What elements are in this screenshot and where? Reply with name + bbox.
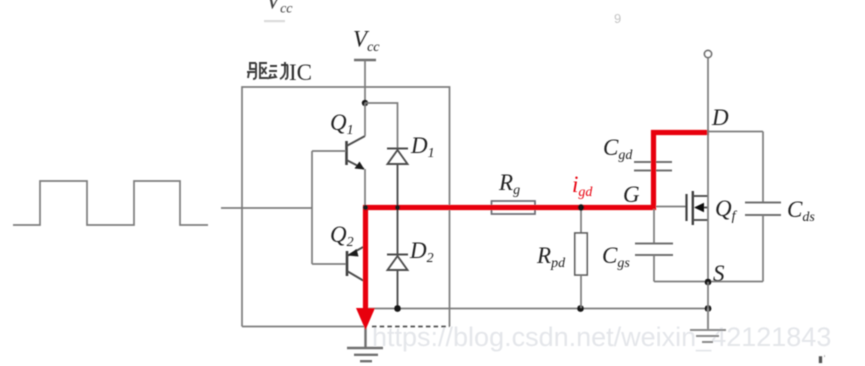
capacitor Cds [745, 132, 781, 282]
wire: input to driver IC [221, 207, 312, 209]
capacitor Cgs plates [635, 244, 673, 256]
svg-text:Vcc: Vcc [266, 0, 293, 17]
drain terminal circle [704, 50, 711, 57]
red discharge path down with arrow [363, 206, 368, 310]
glyph 动 [269, 62, 288, 79]
wire Vcc to node [364, 60, 366, 103]
svg-text:Qf: Qf [715, 196, 738, 224]
svg-text:Q2: Q2 [330, 222, 354, 250]
resistor Rpd [575, 233, 587, 275]
junction dot D1-D2 wire on red wire [395, 205, 400, 210]
wire base bus vertical [311, 151, 313, 264]
wire S down to bottom rail [707, 282, 709, 309]
driver IC box bottom edge (solid part) [242, 326, 364, 328]
svg-text:D1: D1 [410, 133, 435, 161]
junction dot at igd node [578, 204, 584, 210]
wire Rpd to bottom rail [580, 275, 582, 308]
svg-text:https://blog.csdn.net/weixin_4: https://blog.csdn.net/weixin_42121843 [372, 322, 831, 352]
svg-text:Cgs: Cgs [602, 243, 630, 271]
junction dot D2 bottom [394, 305, 401, 312]
wire Q2 base stub [312, 263, 346, 265]
junction dot S bottom [705, 305, 712, 312]
wire Q1 collector up [364, 103, 366, 136]
svg-text:Vcc: Vcc [353, 27, 380, 56]
diode D2 [387, 255, 408, 309]
wire G to gate [656, 206, 686, 208]
wire Q2 collector down [364, 281, 366, 309]
wire S rail [654, 281, 763, 283]
svg-text:▮ʾ: ▮ʾ [818, 354, 826, 364]
svg-text:Rpd: Rpd [536, 243, 566, 271]
wire node to D1 top [365, 103, 398, 148]
diode D1 [387, 149, 408, 255]
svg-text:Cds: Cds [787, 197, 815, 225]
node: Vcc junction dot [362, 100, 368, 106]
red arrowhead [356, 308, 375, 330]
ghost Vcc artifact top-left [264, 0, 293, 22]
svg-text:9: 9 [614, 11, 621, 26]
junction dot at Q emitters on red wire [363, 205, 368, 210]
transistor Q2 (PNP) [347, 246, 365, 281]
transistor Q1 (NPN) [347, 136, 366, 170]
glyph 驱 [247, 63, 268, 79]
node S dot [705, 279, 712, 286]
driver IC box bottom edge (dashed part over watermark) [372, 326, 450, 328]
MOSFET Qf [687, 191, 709, 225]
Vcc supply bar [354, 59, 376, 62]
junction dot Rpd bottom [577, 305, 584, 312]
label 驱动IC [247, 62, 288, 79]
square wave input signal [13, 181, 208, 225]
svg-text:Q1: Q1 [330, 110, 354, 138]
bottom rail wire [365, 308, 708, 310]
wire D to Cds top [708, 131, 763, 133]
svg-text:IC: IC [289, 60, 312, 85]
driver IC box [242, 87, 450, 327]
wire igd node down to Rpd [580, 209, 582, 233]
svg-text:S: S [713, 261, 725, 286]
capacitor Cgd plates [634, 162, 672, 171]
wire Cgs down to S rail [653, 255, 655, 282]
red gate current path (horizontal + up through Cgd to D) [363, 133, 709, 208]
svg-text:G: G [623, 182, 640, 207]
svg-text:D2: D2 [409, 238, 434, 266]
svg-text:D: D [711, 105, 729, 130]
wire G down to Cgs [653, 209, 655, 243]
svg-text:Cgd: Cgd [603, 135, 633, 163]
ground symbol right [690, 309, 726, 343]
wire Q1 emitter down [364, 169, 366, 208]
wire Q1 base stub [312, 150, 346, 152]
svg-text:igd: igd [572, 172, 593, 200]
wire drain vertical [707, 58, 709, 282]
wire Q2 emitter up to node [364, 208, 366, 246]
ground symbol left [347, 326, 383, 361]
resistor Rg [492, 201, 536, 214]
svg-text:Rg: Rg [498, 170, 520, 198]
